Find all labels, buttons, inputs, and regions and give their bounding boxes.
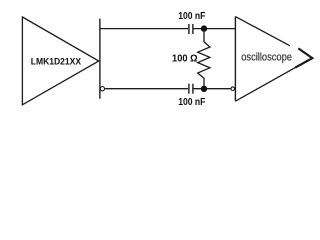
wire bottom rail left segment bbox=[105, 88, 188, 90]
capacitor C1 bbox=[189, 24, 193, 34]
resistor R1 bbox=[198, 29, 210, 89]
buffer U1 LMK1D21XX bbox=[22, 17, 98, 105]
wire top rail left segment bbox=[100, 28, 188, 30]
inverting output bubble bbox=[100, 87, 104, 91]
node junction top bbox=[201, 25, 207, 31]
svg-text:100 nF: 100 nF bbox=[178, 11, 205, 22]
output bar bbox=[99, 19, 101, 99]
svg-text:100 nF: 100 nF bbox=[178, 96, 205, 107]
scope input bubble bbox=[231, 87, 235, 91]
scope apex chevron bbox=[295, 48, 312, 67]
svg-text:oscilloscope: oscilloscope bbox=[241, 52, 292, 64]
svg-text:100 Ω: 100 Ω bbox=[172, 53, 198, 64]
wire top rail right segment bbox=[193, 28, 236, 30]
wire bottom rail right segment bbox=[193, 88, 231, 90]
node junction bottom bbox=[201, 86, 207, 92]
oscilloscope symbol bbox=[235, 17, 295, 102]
capacitor C2 bbox=[189, 84, 193, 94]
svg-text:LMK1D21XX: LMK1D21XX bbox=[31, 56, 81, 67]
